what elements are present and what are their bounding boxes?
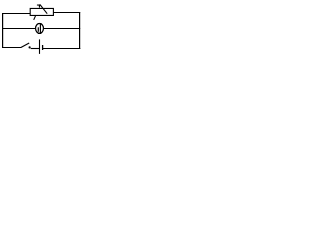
wire: right vertical bus	[79, 12, 81, 49]
meter/cell U1: circle	[36, 24, 44, 34]
arrow of rheostat R1: shaft	[40, 5, 47, 14]
wire: top-left segment	[2, 13, 30, 15]
switch S1: right terminal dot	[29, 46, 31, 48]
arrow of rheostat R1: head vertical barb	[38, 4, 40, 7]
background	[0, 0, 83, 57]
wire: bottom-right segment	[43, 48, 80, 50]
cell bottom cap	[38, 33, 41, 35]
wire: middle-right segment	[43, 28, 80, 30]
wire: bottom-mid segment	[31, 48, 40, 50]
wire: left vertical bus	[2, 13, 4, 48]
switch S1: blade	[21, 43, 29, 48]
cell short electrode	[37, 27, 39, 32]
wire: middle-left segment	[2, 28, 36, 30]
cell top cap	[38, 23, 42, 25]
wire: bottom-left segment	[2, 47, 21, 49]
cell long electrode	[39, 24, 41, 33]
arrow of rheostat R1: head horizontal barb	[37, 4, 41, 6]
stray slash mark below rheostat	[34, 16, 36, 20]
resistor R1 (rheostat box)	[30, 8, 53, 15]
battery B1: short electrode	[42, 45, 44, 50]
battery B1: long electrode	[39, 39, 41, 54]
wire: top-right segment	[53, 12, 80, 14]
